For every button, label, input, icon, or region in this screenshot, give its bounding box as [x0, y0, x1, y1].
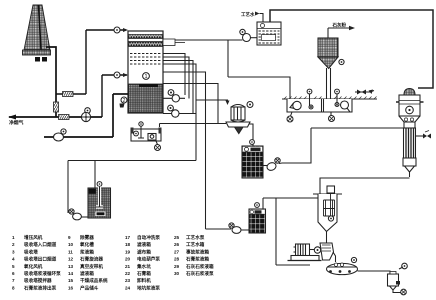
- slurry pool: [129, 84, 163, 113]
- wire inlet riser x102: [101, 75, 103, 117]
- svg-text:工艺水: 工艺水: [241, 11, 255, 18]
- svg-text:石膏浆液排出泵: 石膏浆液排出泵: [23, 284, 57, 291]
- circulation pump P2: [163, 105, 196, 117]
- svg-text:1: 1: [144, 74, 147, 80]
- wire outlet duct riser x86: [85, 30, 87, 94]
- drain pump P8 left compartment: [287, 112, 293, 122]
- svg-text:2: 2: [123, 98, 126, 104]
- svg-text:25: 25: [174, 235, 180, 240]
- oxidation fan B2: [54, 129, 67, 141]
- svg-text:浆液箱: 浆液箱: [80, 248, 94, 255]
- wire spray header 1: [163, 54, 185, 96]
- wire drain branch x276: [276, 198, 310, 265]
- svg-text:5: 5: [12, 264, 15, 269]
- svg-text:26: 26: [174, 242, 180, 247]
- svg-text:除雾器: 除雾器: [80, 234, 94, 241]
- svg-text:16: 16: [68, 285, 74, 290]
- wire demister wash line y38: [175, 39, 243, 41]
- legend column 3: [125, 234, 160, 291]
- wire emergency tank feed x95: [94, 161, 96, 189]
- agitated underflow tank under tower: [131, 122, 162, 141]
- svg-text:27: 27: [174, 249, 180, 254]
- wire oxidation air y94 into tower: [113, 93, 128, 95]
- wire silo vent: [328, 28, 350, 38]
- gypsum cyclone station V1: [396, 89, 424, 178]
- svg-text:石灰石浆液箱: 石灰石浆液箱: [185, 263, 214, 270]
- drain pump P9 right compartment: [329, 112, 335, 122]
- legend column 4: [174, 234, 214, 277]
- wire tower bleed y83.5 to x218 down: [163, 84, 218, 124]
- svg-text:滤液箱: 滤液箱: [137, 241, 151, 248]
- tag circle 1: [143, 73, 150, 80]
- wire silo discharge: [327, 68, 331, 99]
- svg-text:吸收塔出口烟道: 吸收塔出口烟道: [24, 256, 57, 263]
- limestone slurry tank T3: [242, 140, 263, 178]
- slurry preparation twin tank T5: [282, 89, 377, 112]
- svg-text:石灰粉: 石灰粉: [332, 22, 347, 29]
- filtrate pump P10: [229, 223, 241, 234]
- instrument on outlet duct: [114, 27, 120, 33]
- svg-text:28: 28: [174, 257, 180, 262]
- svg-text:10: 10: [68, 242, 74, 247]
- vacuum receiver boat V3: [327, 257, 358, 274]
- svg-text:自动冲洗泵: 自动冲洗泵: [137, 234, 160, 241]
- svg-text:石膏箱: 石膏箱: [136, 270, 151, 277]
- wire filtrate pump line y230: [206, 229, 250, 230]
- svg-text:11: 11: [68, 249, 73, 254]
- svg-text:产品储斗: 产品储斗: [80, 284, 99, 291]
- wire cyclone underflow to thickener: [320, 178, 410, 205]
- svg-text:工艺水箱: 工艺水箱: [186, 241, 205, 248]
- svg-text:17: 17: [125, 235, 131, 240]
- absorber tower T1: [128, 31, 185, 113]
- svg-text:30: 30: [174, 271, 180, 276]
- ball mill M1: [226, 102, 253, 134]
- wire process water top pipe to cyclone: [270, 10, 433, 88]
- legend column 2: [68, 234, 108, 291]
- svg-text:20: 20: [125, 257, 131, 262]
- svg-text:增压风机: 增压风机: [24, 234, 43, 241]
- process water pump P7: [240, 29, 257, 41]
- wire mill feed branch y100: [196, 100, 228, 101]
- wire spray header 4: [163, 64, 196, 161]
- svg-text:13: 13: [68, 264, 74, 269]
- vacuum belt filter drive M2: [288, 244, 322, 261]
- limestone slurry pump P6: [266, 158, 280, 172]
- wire oxidation riser x113: [112, 94, 114, 137]
- demister layer 2 with wash duct stub: [129, 42, 163, 47]
- wire lime slurry discharge to cyclone feed: [279, 128, 403, 164]
- small pump under tag 2: [120, 104, 125, 108]
- wire mill discharge to limestone tank: [249, 124, 253, 146]
- svg-text:干燥成品系统: 干燥成品系统: [80, 277, 108, 284]
- booster fan B1: [81, 108, 90, 122]
- svg-text:吸收塔: 吸收塔: [24, 248, 38, 255]
- limestone silo S1: [318, 38, 344, 69]
- wire spray header 3: [163, 61, 193, 114]
- svg-text:事故浆液箱: 事故浆液箱: [186, 248, 209, 255]
- svg-text:19: 19: [125, 249, 131, 254]
- svg-text:吸收塔搅拌器: 吸收塔搅拌器: [24, 277, 52, 284]
- demister layer 1: [129, 35, 163, 39]
- svg-text:工艺水泵: 工艺水泵: [186, 234, 205, 241]
- svg-text:23: 23: [125, 278, 131, 283]
- svg-text:8: 8: [12, 285, 15, 290]
- wire oxidation fan line y137: [44, 136, 113, 138]
- centrifuge C1: [320, 243, 336, 262]
- svg-text:7: 7: [12, 278, 15, 283]
- wire bypass duct y94: [56, 93, 86, 95]
- damper D1 on stack duct: [54, 102, 59, 112]
- svg-text:3: 3: [12, 249, 15, 254]
- svg-text:1: 1: [12, 235, 15, 240]
- legend: [12, 234, 214, 291]
- emergency slurry tank T2: [88, 182, 111, 218]
- tag circle 2: [121, 97, 127, 103]
- svg-text:真空皮带机: 真空皮带机: [80, 263, 103, 270]
- wire emergency return line y160: [68, 160, 196, 162]
- svg-text:石膏旋流器: 石膏旋流器: [79, 256, 103, 263]
- svg-text:4: 4: [12, 257, 15, 262]
- small discharge hopper V4: [388, 263, 408, 295]
- svg-text:石灰石浆液泵: 石灰石浆液泵: [185, 270, 214, 277]
- wire overflow drop to filtrate tank: [262, 198, 264, 209]
- wire branch to slurry tanks x228: [228, 40, 290, 99]
- wire tank T3 outlet to lime pump: [263, 165, 268, 167]
- wire outlet duct y30 to tower top: [86, 29, 126, 31]
- wire raw flue gas duct y117: [9, 116, 102, 118]
- wire spray header 2: [163, 57, 189, 99]
- svg-text:18: 18: [125, 242, 131, 247]
- wire emergency pump suction x68: [67, 161, 69, 214]
- svg-text:14: 14: [68, 271, 74, 276]
- svg-text:滤布箱: 滤布箱: [137, 248, 151, 255]
- wire tower drain y72 to x205 riser down: [163, 72, 206, 229]
- wire chimney to stack duct: [46, 47, 56, 117]
- svg-text:石膏浆液箱: 石膏浆液箱: [185, 256, 209, 263]
- svg-text:氧化槽: 氧化槽: [80, 241, 94, 248]
- filtrate tank T6: [249, 203, 266, 233]
- svg-text:9: 9: [68, 235, 71, 240]
- damper D2: [63, 92, 74, 97]
- svg-text:净烟气: 净烟气: [9, 119, 24, 126]
- circulation pump P1: [163, 90, 185, 102]
- svg-text:集水坑: 集水坑: [136, 263, 151, 270]
- gypsum buffer thickener V2: [313, 186, 342, 243]
- svg-text:卸料机: 卸料机: [137, 277, 151, 284]
- svg-text:6: 6: [12, 271, 15, 276]
- svg-text:21: 21: [125, 264, 131, 269]
- svg-text:2: 2: [12, 242, 15, 247]
- svg-text:29: 29: [174, 264, 180, 269]
- damper D3: [59, 115, 70, 120]
- svg-text:12: 12: [68, 257, 74, 262]
- svg-text:15: 15: [68, 278, 74, 283]
- svg-text:地坑浆液泵: 地坑浆液泵: [137, 284, 160, 291]
- wire underflow tank line y123.5: [160, 124, 227, 128]
- svg-text:吸收塔入口烟道: 吸收塔入口烟道: [24, 241, 57, 248]
- svg-text:氧化风机: 氧化风机: [24, 263, 43, 270]
- svg-text:24: 24: [125, 285, 131, 290]
- instrument on inlet duct: [114, 72, 120, 78]
- drain pump P4 below tank: [155, 141, 161, 151]
- svg-text:滤液箱: 滤液箱: [80, 270, 94, 277]
- spray header dashed levels: [130, 53, 161, 55]
- wire thickener overflow y198: [263, 197, 318, 199]
- makeup water valve at tank right: [355, 90, 374, 95]
- wire boat to hopper y272: [358, 271, 391, 274]
- svg-text:22: 22: [125, 271, 131, 276]
- chimney: [23, 5, 51, 62]
- valve on cyclone overflow: [416, 131, 431, 139]
- emergency tank pump P5: [69, 209, 88, 220]
- process water tank T4: [257, 22, 281, 45]
- svg-text:电动葫芦泵: 电动葫芦泵: [137, 256, 160, 263]
- wire tower inlet duct y75: [102, 74, 127, 76]
- svg-text:吸收塔浆液循环泵: 吸收塔浆液循环泵: [24, 270, 61, 277]
- legend column 1: [12, 234, 61, 291]
